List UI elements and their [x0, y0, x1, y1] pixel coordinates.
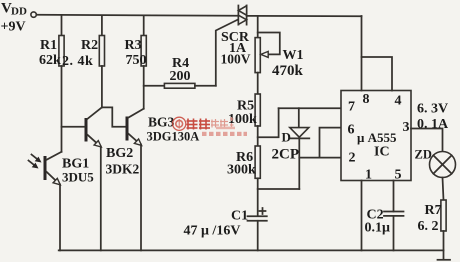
svg-text:2: 2: [349, 151, 356, 166]
svg-text:R1: R1: [40, 38, 57, 53]
svg-text:300k: 300k: [227, 163, 256, 178]
svg-text:7: 7: [348, 100, 355, 115]
wire pin3 to lamp: [411, 129, 443, 152]
svg-text:47 μ /16V: 47 μ /16V: [184, 224, 241, 239]
wire pin8 to VDD rail: [361, 16, 363, 91]
capacitor C1: [184, 208, 267, 250]
wire BG2 collector to BG3 base: [102, 107, 126, 126]
node VDD terminal: [31, 12, 36, 17]
wire R5/R6 junction to diode anode riser: [258, 108, 279, 137]
resistor R5: [228, 73, 260, 146]
watermark text 电子市场 (lighter): [211, 117, 234, 128]
svg-text:100V: 100V: [221, 52, 251, 67]
svg-text:BG2: BG2: [106, 146, 133, 161]
wire pin7 line: [279, 107, 341, 109]
wire top rail left (VDD to SCR): [36, 15, 238, 16]
lamp ZD: [415, 148, 456, 178]
svg-text:5: 5: [395, 168, 402, 183]
svg-text:2. 4k: 2. 4k: [62, 54, 93, 69]
svg-text:8: 8: [363, 92, 370, 107]
watermark small row: [202, 127, 247, 136]
ground: [438, 259, 451, 261]
svg-text:3: 3: [403, 120, 410, 135]
resistor R1: [39, 16, 64, 152]
resistor R7: [418, 178, 447, 260]
wire C1 top node: [258, 188, 300, 190]
svg-text:6. 3V: 6. 3V: [417, 102, 448, 117]
svg-text:R3: R3: [125, 38, 142, 53]
svg-text:ZD: ZD: [415, 148, 432, 162]
SCR (triac symbol): [221, 6, 251, 67]
svg-text:D: D: [282, 130, 291, 145]
svg-text:R2: R2: [81, 38, 98, 53]
svg-text:+9V: +9V: [1, 20, 26, 35]
resistor R3: [125, 16, 147, 109]
watermark text 维库: [187, 119, 211, 130]
transistor BG2: [62, 107, 140, 250]
wire pin1 to ground rail: [361, 181, 363, 251]
resistor R6: [227, 146, 260, 216]
resistor R2: [62, 16, 105, 108]
svg-text:R7: R7: [425, 203, 442, 218]
svg-text:4: 4: [395, 94, 402, 109]
wire pin4 to pin8 line: [362, 57, 393, 91]
wire top rail right (SCR to pin8 drop): [247, 15, 362, 17]
wire R4 to SCR gate: [216, 20, 238, 86]
svg-text:3DG130A: 3DG130A: [147, 130, 200, 144]
svg-text:3DK2: 3DK2: [106, 162, 140, 177]
svg-text:200: 200: [170, 69, 191, 84]
diode D 2CP: [272, 108, 310, 189]
watermark seal: [173, 117, 186, 130]
svg-text:0. 1A: 0. 1A: [417, 117, 449, 132]
svg-text:750: 750: [126, 53, 147, 68]
svg-text:IC: IC: [374, 145, 390, 160]
transistor BG1 (photo): [29, 152, 95, 251]
svg-text:62k: 62k: [39, 53, 61, 68]
IC A555 box: [341, 91, 411, 183]
svg-text:0.1μ: 0.1μ: [365, 221, 391, 236]
svg-text:BG3: BG3: [148, 115, 175, 130]
svg-text:6. 2: 6. 2: [418, 219, 439, 234]
wire bottom ground rail: [59, 249, 444, 251]
wire pin2 line: [299, 157, 341, 159]
svg-text:1: 1: [365, 168, 372, 183]
transistor BG3: [127, 109, 199, 251]
svg-text:470k: 470k: [272, 63, 304, 79]
resistor R4: [144, 56, 216, 88]
svg-text:DD: DD: [11, 6, 27, 18]
svg-text:2CP: 2CP: [272, 147, 300, 163]
potentiometer W1: [255, 16, 303, 79]
wire pin5 to C2: [393, 181, 395, 212]
capacitor C2: [365, 208, 404, 251]
svg-text:μ A555: μ A555: [357, 130, 397, 145]
wire pin6 to pin2 link: [320, 128, 342, 158]
svg-text:C1: C1: [231, 209, 248, 224]
svg-text:W1: W1: [283, 48, 304, 63]
svg-text:3DU5: 3DU5: [62, 170, 94, 185]
svg-text:6: 6: [348, 123, 355, 138]
